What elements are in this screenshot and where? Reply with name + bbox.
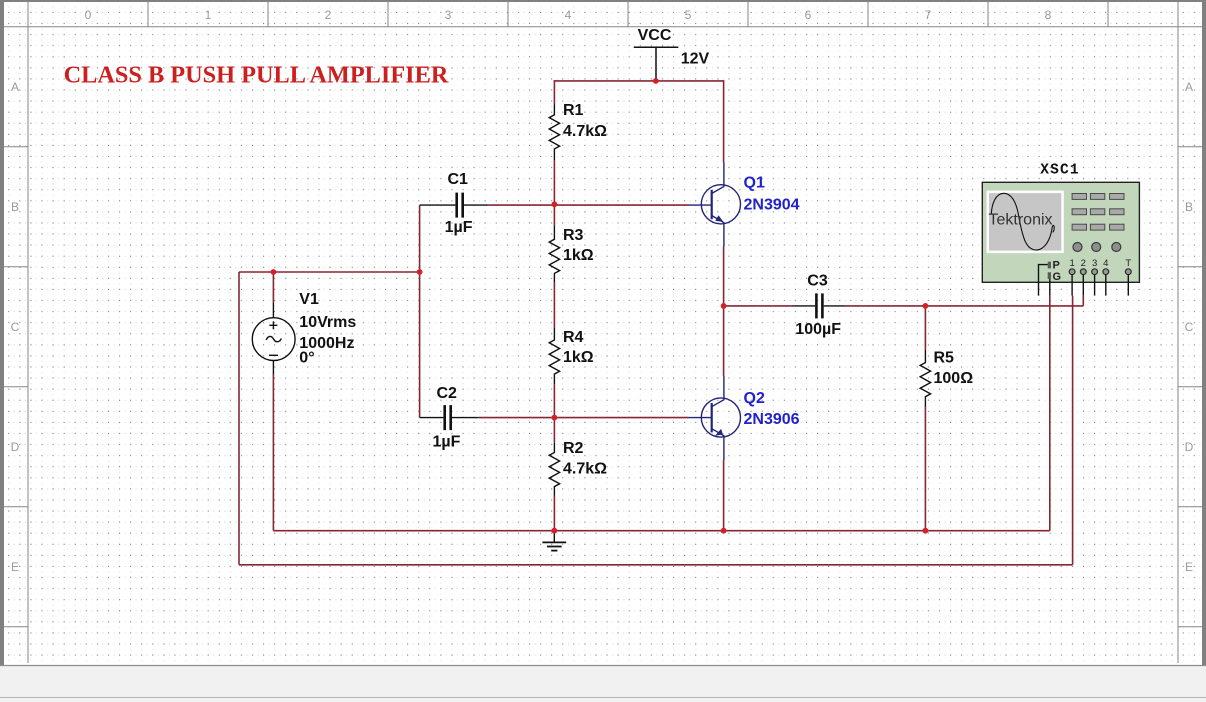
svg-text:C2: C2 — [437, 385, 458, 402]
wire Q2 emitter to ground bus — [723, 460, 725, 531]
svg-text:V1: V1 — [299, 291, 319, 308]
XSC1 pin labels 1 2 3 4 T — [1069, 258, 1131, 269]
svg-text:0°: 0° — [299, 350, 314, 367]
svg-text:1kΩ: 1kΩ — [563, 247, 594, 264]
oscilloscope XSC1 — [982, 163, 1139, 296]
svg-text:5: 5 — [685, 8, 692, 22]
svg-text:4.7kΩ: 4.7kΩ — [563, 460, 607, 477]
svg-text:0: 0 — [85, 8, 92, 22]
bottom panel — [0, 665, 1206, 702]
resistor R2 — [549, 443, 559, 496]
ruler numbers — [85, 8, 1052, 22]
XSC1 body — [982, 182, 1139, 282]
wire R4 bottom to node — [553, 385, 555, 443]
svg-text:CLASS B PUSH PULL AMPLIFIER: CLASS B PUSH PULL AMPLIFIER — [64, 62, 449, 89]
wire ground bus horizontal — [273, 530, 1049, 532]
resistor R1 — [549, 105, 559, 161]
svg-text:R3: R3 — [563, 227, 584, 244]
junction V1 plus tap — [271, 269, 277, 275]
svg-text:C: C — [11, 320, 20, 334]
wire C3 to R5 node to scope ch2 — [845, 305, 1083, 307]
XSC1 pin stub wires — [1039, 265, 1129, 296]
junction R5 top tap — [923, 303, 929, 309]
wire Q1 collector vertical — [723, 80, 725, 162]
svg-text:100Ω: 100Ω — [934, 370, 974, 387]
svg-text:1kΩ: 1kΩ — [563, 349, 594, 366]
wire bottom outer horizontal to scope ch1 — [239, 564, 1073, 566]
svg-text:10Vrms: 10Vrms — [299, 314, 356, 331]
wire R3 bottom to R4 top — [553, 282, 555, 328]
svg-text:G: G — [1053, 271, 1062, 283]
svg-text:B: B — [11, 200, 19, 214]
svg-text:B: B — [1185, 200, 1193, 214]
svg-text:2: 2 — [1081, 258, 1086, 269]
capacitor C2 — [420, 405, 479, 430]
wire C1 out to Q1 base — [488, 204, 688, 206]
svg-text:R5: R5 — [934, 350, 955, 367]
svg-text:C: C — [1185, 320, 1194, 334]
wire output node to Q2 collector — [723, 306, 725, 376]
svg-text:1: 1 — [1069, 258, 1074, 269]
svg-text:2N3906: 2N3906 — [744, 411, 800, 428]
junction VCC rail — [653, 78, 659, 84]
XSC1 knobs — [1073, 243, 1121, 252]
wire C2 out to Q2 base — [479, 417, 689, 419]
wire R5 bottom to ground bus — [924, 407, 926, 531]
svg-text:R2: R2 — [563, 440, 584, 457]
svg-text:100µF: 100µF — [795, 321, 841, 338]
capacitor C3 — [791, 293, 845, 318]
wire VCC top rail horizontal — [554, 80, 723, 82]
XSC1 P connector — [1048, 262, 1051, 269]
XSC1 terminals 1 2 3 4 T — [1069, 269, 1131, 275]
capacitor C1 — [420, 193, 489, 218]
svg-text:A: A — [11, 80, 19, 94]
svg-text:VCC: VCC — [638, 27, 672, 44]
svg-text:Q2: Q2 — [744, 390, 765, 407]
XSC1 button grid — [1072, 194, 1124, 231]
wire V1 minus down — [272, 374, 274, 531]
svg-text:12V: 12V — [681, 51, 710, 68]
svg-text:7: 7 — [925, 8, 932, 22]
svg-text:P: P — [1053, 260, 1060, 272]
junction ground at Q2 — [721, 528, 727, 534]
XSC1 screen — [987, 191, 1064, 254]
junction ground at R2 — [551, 528, 557, 534]
wire R5 top — [924, 306, 926, 350]
svg-text:1µF: 1µF — [433, 433, 461, 450]
svg-text:E: E — [11, 560, 19, 574]
svg-text:C3: C3 — [807, 273, 828, 290]
wire C1-C2 left vertical — [419, 205, 421, 418]
svg-text:2: 2 — [325, 8, 332, 22]
svg-text:1µF: 1µF — [445, 219, 473, 236]
svg-text:E: E — [1185, 560, 1193, 574]
svg-text:6: 6 — [805, 8, 812, 22]
junction Q1 base / C1 / R1 / R3 node — [552, 201, 558, 207]
svg-text:D: D — [1185, 440, 1194, 454]
svg-text:A: A — [1185, 80, 1193, 94]
wire Q1 emitter to output node — [723, 247, 725, 306]
svg-text:8: 8 — [1045, 8, 1052, 22]
svg-text:3: 3 — [445, 8, 452, 22]
svg-text:2N3904: 2N3904 — [744, 197, 800, 214]
wire V1 plus stub — [272, 272, 274, 302]
wire scope G vertical — [1049, 296, 1051, 531]
transistor Q2 — [689, 376, 741, 460]
junction Q2 base / C2 / R4 / R2 node — [552, 415, 558, 421]
svg-text:T: T — [1125, 258, 1131, 269]
svg-text:XSC1: XSC1 — [1040, 163, 1080, 179]
XSC1 screen sine wave — [991, 193, 1054, 250]
wire scope ch2 vertical — [1082, 296, 1084, 306]
transistor Q1 — [689, 163, 741, 247]
svg-text:R1: R1 — [563, 102, 584, 119]
source V1 — [252, 302, 295, 374]
side ruler ticks — [4, 147, 1202, 627]
junction C1-C2 input node — [417, 269, 423, 275]
junction output node at Q1/Q2 — [721, 303, 727, 309]
svg-text:4: 4 — [1103, 258, 1108, 269]
ground — [542, 532, 566, 551]
wire R1 top vertical — [553, 80, 555, 104]
wire left outer vertical — [238, 272, 240, 565]
svg-text:4.7kΩ: 4.7kΩ — [563, 123, 607, 140]
wire scope ch1 vertical — [1072, 296, 1074, 565]
XSC1 G connector — [1048, 272, 1051, 279]
wire output node to C3 — [724, 305, 792, 307]
svg-text:1: 1 — [205, 8, 212, 22]
svg-text:4: 4 — [565, 8, 572, 22]
svg-text:C1: C1 — [448, 171, 469, 188]
ruler letters — [11, 80, 1194, 574]
wire R1 bottom to node — [553, 160, 555, 226]
resistor R3 — [549, 226, 559, 282]
svg-text:D: D — [11, 440, 20, 454]
top ruler ticks — [148, 2, 1108, 27]
svg-text:Q1: Q1 — [744, 175, 765, 192]
resistor R4 — [549, 328, 559, 385]
junction ground at R5 — [923, 528, 929, 534]
svg-text:3: 3 — [1092, 258, 1097, 269]
svg-text:R4: R4 — [563, 329, 584, 346]
resistor R5 — [920, 350, 930, 407]
wire V1 top horizontal — [239, 271, 420, 273]
wire R2 bottom to ground bus — [553, 496, 555, 531]
svg-text:Tektronix: Tektronix — [989, 212, 1053, 229]
power VCC symbol — [634, 47, 679, 79]
